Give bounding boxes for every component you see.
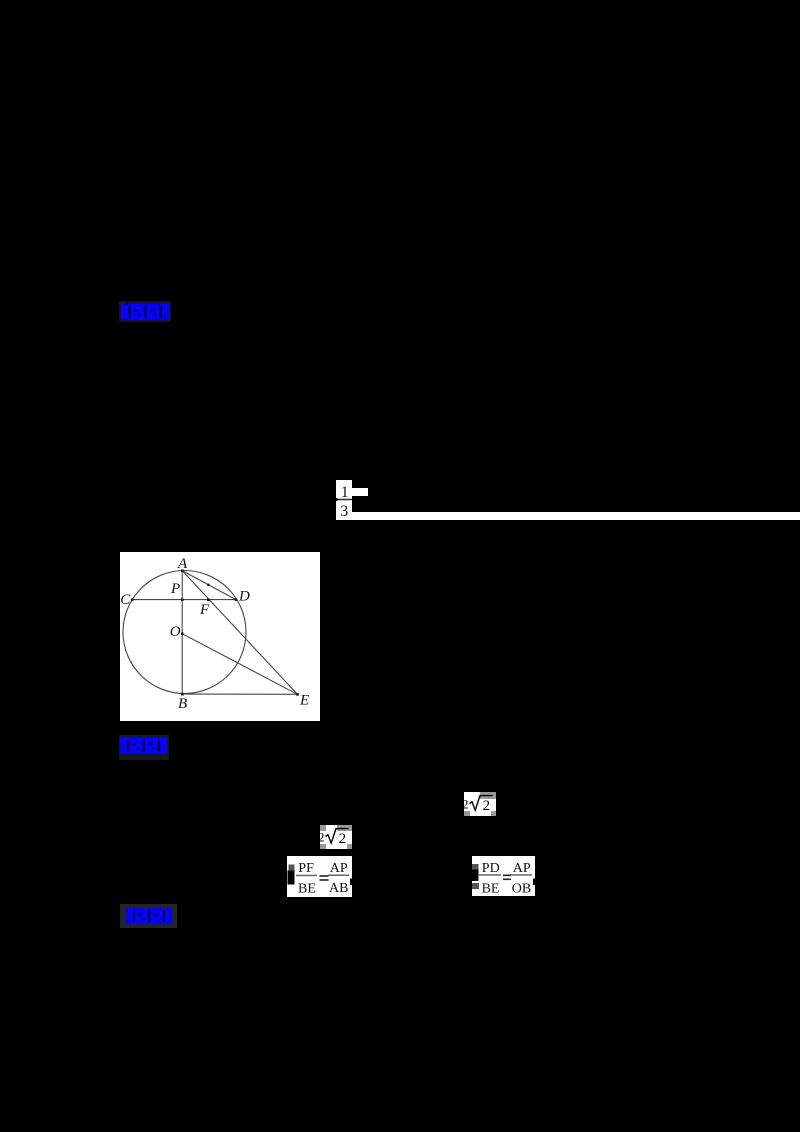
svg-text:AP: AP bbox=[330, 861, 348, 876]
svg-text:A: A bbox=[177, 556, 188, 572]
svg-text:2: 2 bbox=[320, 829, 325, 844]
svg-text:AP: AP bbox=[513, 861, 531, 876]
svg-text:BE: BE bbox=[482, 881, 500, 896]
svg-text:B: B bbox=[178, 696, 187, 712]
svg-text:3: 3 bbox=[340, 503, 348, 520]
svg-text:2: 2 bbox=[339, 831, 347, 847]
svg-text:P: P bbox=[170, 580, 180, 596]
svg-text:2: 2 bbox=[483, 798, 491, 814]
svg-text:AB: AB bbox=[329, 881, 348, 896]
svg-text:F: F bbox=[199, 601, 210, 617]
svg-text:C: C bbox=[120, 592, 131, 608]
svg-text:BE: BE bbox=[298, 881, 316, 896]
svg-text:PF: PF bbox=[298, 860, 314, 875]
svg-text:2: 2 bbox=[464, 796, 469, 811]
svg-text:1: 1 bbox=[341, 484, 349, 501]
svg-text:E: E bbox=[299, 692, 309, 708]
svg-text:OB: OB bbox=[512, 881, 531, 896]
svg-text:D: D bbox=[238, 588, 250, 604]
svg-text:O: O bbox=[170, 624, 181, 640]
svg-text:PD: PD bbox=[482, 861, 500, 876]
